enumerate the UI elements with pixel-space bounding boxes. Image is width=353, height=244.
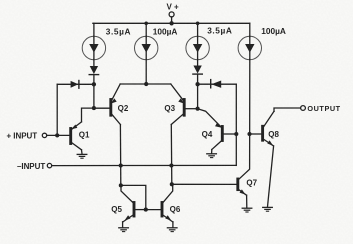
wire: Q7 emitter to ground <box>246 195 248 207</box>
OUTPUT terminal <box>301 106 306 111</box>
wire: rail to I4 <box>249 23 251 37</box>
junction: Q1 emitter / D1 column / Q2 base <box>92 106 96 110</box>
wire: Q6 emitter to ground <box>172 222 174 228</box>
junction: rail / I3 <box>196 22 200 26</box>
current source I1 3.5uA <box>82 36 105 60</box>
wire: Q8 collector to output <box>274 108 301 111</box>
wire: V+ rail <box>93 22 250 24</box>
ground (Q1 collector) <box>77 154 87 158</box>
diode D1 <box>89 66 98 75</box>
junction: node B <box>170 182 174 186</box>
junction: D1 column / D2 branch <box>92 82 96 86</box>
wire: Q6 base <box>146 209 162 211</box>
wire: D2 branch horizontal <box>57 83 94 85</box>
junction: +input / D2 branch <box>55 133 59 137</box>
wire: Q2 collector down to mirror node A <box>119 125 121 186</box>
wire: D4 branch horizontal <box>198 83 237 85</box>
wire: rail to I3 <box>197 23 199 37</box>
wire: D1 cathode down to Q2 base node <box>93 75 95 109</box>
wire: Q8 base <box>250 133 263 135</box>
ground (Q4 collector) <box>207 154 217 158</box>
transistor Q4 <box>198 109 223 150</box>
ground (Q6 emitter) <box>167 228 177 232</box>
diode D4 <box>211 80 222 88</box>
diode D2 <box>71 81 79 89</box>
wire: node A to Q5/Q6 base riser <box>121 185 146 209</box>
wire: node B to Q7 base <box>172 183 238 185</box>
wire: I2 to Q2/Q3 emitter rail <box>145 59 147 84</box>
transistor Q3 <box>171 84 185 125</box>
wire: I4 down to Q7 collector <box>238 59 249 179</box>
junction: Q5/Q6 bases <box>144 208 148 212</box>
wire: Q1 emitter up to Q2 base <box>82 108 111 122</box>
current source I4 100uA <box>238 36 261 60</box>
transistor Q5 <box>121 185 134 222</box>
wire: rail to I1 <box>93 23 95 37</box>
ground (Q7 emitter) <box>242 208 252 212</box>
junction: I4 column / Q8 base <box>247 132 251 136</box>
current source I3 3.5uA <box>186 36 209 60</box>
wire: Q8 emitter to ground <box>268 146 274 207</box>
wire: D4 branch down to -input node <box>235 84 237 165</box>
wire: Q4 collector to ground <box>211 150 213 154</box>
wire: Q3 collector down to node B <box>170 125 173 185</box>
junction: -input / Q3 collector line <box>169 163 173 167</box>
junction: Q3 base / D3 column / Q4 emitter <box>196 107 200 111</box>
junction: rail / I2 <box>144 22 148 26</box>
junction: rail / V+ <box>169 21 173 25</box>
junction: node A <box>119 183 123 187</box>
+INPUT terminal <box>42 133 70 137</box>
V+ terminal <box>169 12 174 23</box>
junction: Q4 base / riser <box>234 132 238 136</box>
ground (Q8 emitter) <box>263 207 273 211</box>
wire: Q3 base to D3 node <box>184 108 197 110</box>
wire: I1 to D1 <box>93 59 95 66</box>
wire: D3 cathode down to Q3 base node <box>197 74 199 109</box>
-INPUT terminal <box>47 163 236 167</box>
current source I2 100uA <box>135 36 158 60</box>
transistor Q8 <box>263 111 274 146</box>
wire: Q2/Q3 emitter rail <box>120 83 171 85</box>
wire: D2 branch down to +input node <box>56 84 58 135</box>
transistor Q1 <box>71 122 82 150</box>
junction: emitter rail / I2 <box>144 82 148 86</box>
wire: Q5 emitter to ground <box>122 222 124 228</box>
wire: Q1 collector to ground <box>81 150 84 154</box>
transistor Q6 <box>162 184 173 222</box>
diode D3 <box>193 66 202 75</box>
junction: D3 column / D4 branch <box>195 82 199 86</box>
wire: Q5 base <box>134 209 146 211</box>
wire: rail to I2 <box>145 23 147 37</box>
wire: I3 to D3 <box>197 59 199 65</box>
transistor Q7 <box>238 179 247 195</box>
wire: Q4 base <box>222 133 236 135</box>
wire: Q2 base from D1 node <box>94 107 111 109</box>
transistor Q2 <box>111 84 121 125</box>
junction: -input / Q2 collector line <box>119 163 123 167</box>
ground (Q5 emitter) <box>119 228 129 232</box>
